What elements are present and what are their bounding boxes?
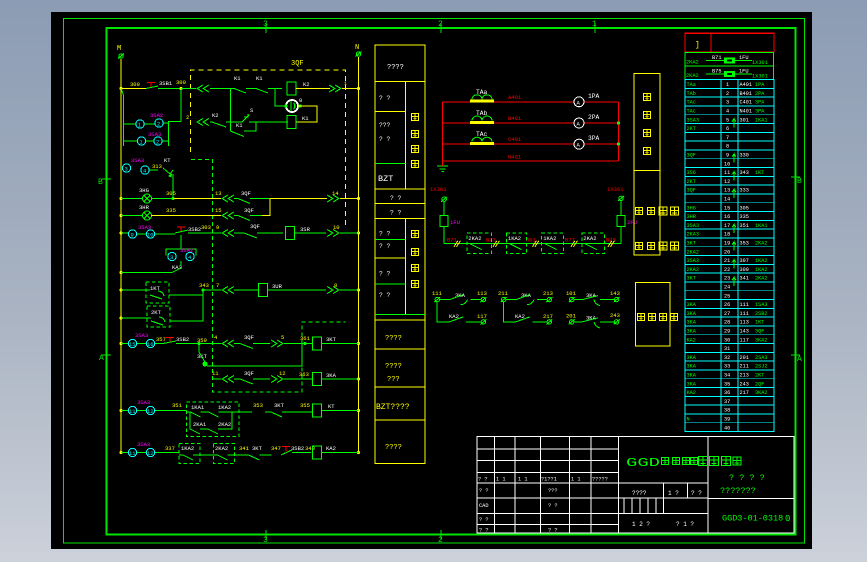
svg-text:3SA2: 3SA2 (150, 112, 163, 119)
svg-text:1KA2: 1KA2 (755, 267, 767, 273)
svg-text:TAb: TAb (476, 110, 488, 117)
svg-text:3SA3: 3SA3 (687, 117, 699, 123)
circle 9 (128, 230, 136, 238)
svg-text:3QF: 3QF (250, 223, 260, 230)
inner border frame (107, 28, 796, 535)
node on right bus (357, 87, 360, 90)
node on left bus (120, 197, 123, 200)
right bus terminal (356, 52, 362, 57)
svg-text:3S6: 3S6 (687, 170, 696, 176)
coil K2 (287, 82, 296, 95)
svg-text:3: 3 (726, 100, 729, 106)
svg-text:2: 2 (157, 121, 160, 128)
svg-text:3KA: 3KA (326, 372, 337, 379)
yellow box current loop (634, 74, 660, 171)
svg-text:2: 2 (186, 114, 189, 121)
svg-text:1KA1: 1KA1 (191, 404, 205, 411)
svg-text:1 2 ?: 1 2 ? (632, 521, 650, 528)
circle 10 (146, 230, 154, 238)
svg-text:1KA2: 1KA2 (218, 404, 231, 411)
dashed box 3QF breaker (yellow) (191, 70, 346, 229)
svg-text:BZT: BZT (378, 174, 393, 184)
svg-text:113: 113 (477, 290, 487, 297)
svg-text:343: 343 (740, 170, 749, 176)
outgoing group 2 row 1 (501, 297, 507, 302)
svg-text:????: ???? (385, 363, 402, 371)
svg-text:K1: K1 (236, 122, 243, 129)
switching bus wire (444, 243, 621, 245)
svg-text:0: 0 (785, 514, 790, 524)
svg-text:? ? ? ?: ? ? ? ? (729, 473, 765, 483)
svg-text:117: 117 (740, 337, 749, 343)
svg-text:3PA: 3PA (755, 100, 765, 106)
svg-text:301: 301 (740, 117, 749, 123)
svg-text:361: 361 (300, 335, 311, 342)
wire 305 (152, 198, 174, 200)
svg-text:1 1: 1 1 (518, 477, 528, 483)
svg-text:333: 333 (740, 188, 749, 194)
svg-text:2KA2: 2KA2 (755, 241, 767, 247)
svg-text:3KA: 3KA (687, 373, 697, 379)
wire hook mark (732, 172, 736, 181)
svg-text:????: ???? (387, 64, 404, 72)
svg-text:? ?: ? ? (691, 490, 702, 497)
svg-text:211: 211 (498, 290, 509, 297)
svg-text:2SB2: 2SB2 (755, 311, 767, 317)
selector 3SA2 circle 2 (155, 119, 163, 127)
wire 335 (152, 215, 222, 217)
svg-text:2SA3: 2SA3 (755, 355, 767, 361)
svg-text:351: 351 (172, 402, 183, 409)
svg-text:3KT: 3KT (326, 336, 337, 343)
svg-text:1FU: 1FU (739, 69, 749, 75)
svg-text:11: 11 (129, 408, 136, 415)
circle 4 (141, 166, 149, 174)
svg-text:?????: ????? (592, 477, 608, 483)
svg-text:3SA3: 3SA3 (135, 332, 148, 339)
svg-text:40: 40 (724, 425, 730, 431)
svg-text:33: 33 (724, 364, 730, 370)
circle 3 sub (168, 252, 176, 260)
wire hook mark (732, 154, 736, 163)
svg-text:9: 9 (216, 224, 219, 231)
svg-text:9: 9 (726, 153, 729, 159)
svg-text:36: 36 (724, 390, 730, 396)
dashed box 2KA2 (214, 444, 235, 464)
wire hook mark (732, 119, 736, 128)
svg-text:353: 353 (740, 241, 749, 247)
selector 3SA2 circle 1 (136, 120, 144, 128)
svg-text:3KA: 3KA (687, 381, 697, 387)
svg-text:2SJ2: 2SJ2 (755, 364, 767, 370)
svg-text:2KA2: 2KA2 (583, 235, 596, 242)
svg-text:???: ??? (387, 376, 400, 384)
svg-text:B401: B401 (740, 91, 752, 97)
node on right bus (357, 451, 360, 454)
svg-text:?1??1: ?1??1 (541, 477, 557, 483)
svg-text:111: 111 (740, 302, 749, 308)
svg-text:1: 1 (140, 140, 143, 146)
svg-text:TAc: TAc (476, 131, 488, 138)
yellow box control power (634, 171, 660, 256)
svg-text:3SA3: 3SA3 (148, 131, 161, 138)
section B divider (405, 82, 407, 190)
node on left bus (120, 87, 123, 90)
zone tick marks sides (102, 177, 800, 355)
contact in 2KA2 (470, 244, 489, 250)
svg-text:????: ???? (385, 335, 402, 343)
wire row 11 (213, 378, 221, 380)
svg-text:3: 3 (125, 166, 128, 173)
svg-text:2KA3: 2KA3 (687, 232, 699, 238)
svg-text:8: 8 (334, 282, 337, 289)
svg-text:309: 309 (740, 267, 749, 273)
svg-text:2FU: 2FU (627, 219, 637, 226)
current circuit right bus (618, 102, 620, 161)
svg-text:19: 19 (724, 241, 730, 247)
terminal table border (685, 80, 774, 432)
wire row13 out (270, 198, 327, 200)
svg-text:0: 0 (299, 97, 302, 104)
svg-text:GGD: GGD (626, 456, 660, 470)
svg-text:22: 22 (724, 267, 730, 273)
svg-text:24: 24 (724, 285, 730, 291)
node 300 (180, 87, 183, 90)
svg-text:111: 111 (432, 290, 443, 297)
svg-text:3SA2: 3SA2 (180, 247, 193, 254)
arrow in row1 (197, 85, 209, 92)
circle 13 (128, 448, 136, 456)
contacts in relay group top (187, 412, 239, 417)
svg-text:1 1: 1 1 (571, 477, 581, 483)
dashed relay box 1KA2 (506, 233, 526, 253)
node on left bus (120, 317, 123, 320)
svg-text:1X301: 1X301 (607, 186, 624, 193)
middle table outline (375, 45, 425, 464)
node on left bus (120, 232, 123, 235)
svg-text:1PA: 1PA (755, 82, 765, 88)
svg-text:3QF: 3QF (687, 153, 696, 159)
svg-text:2KT: 2KT (151, 309, 162, 316)
dashed relay box 2KA2 (467, 233, 492, 253)
svg-text:201: 201 (740, 355, 749, 361)
svg-text:13: 13 (215, 190, 222, 197)
coil 3UR (259, 284, 268, 297)
pushbutton 3SB2 (177, 227, 185, 232)
circle 12 (146, 406, 154, 414)
svg-text:2KA2: 2KA2 (755, 276, 767, 282)
svg-text:213: 213 (740, 373, 749, 379)
fuse 2FU (617, 215, 625, 226)
wire: left yellow bus (120, 59, 122, 453)
wire (210, 88, 234, 90)
node on left bus (120, 451, 123, 454)
svg-text:11: 11 (724, 170, 730, 176)
svg-text:303: 303 (201, 224, 211, 231)
svg-text:25: 25 (724, 293, 730, 299)
svg-text:6: 6 (726, 126, 729, 132)
svg-text:30: 30 (724, 337, 730, 343)
svg-text:3KA2: 3KA2 (755, 337, 767, 343)
svg-text:343: 343 (199, 282, 209, 289)
node on right bus (357, 342, 360, 345)
wire to arrow (181, 88, 196, 90)
svg-text:? ?: ? ? (379, 136, 391, 143)
wire to K1 coil (256, 121, 288, 123)
svg-text:10: 10 (147, 232, 154, 239)
svg-text:3SB1: 3SB1 (159, 80, 173, 87)
svg-text:335: 335 (166, 207, 176, 214)
fuse 1FU (440, 215, 448, 226)
svg-text:2KA2: 2KA2 (686, 73, 699, 79)
GGD section grid (619, 482, 709, 484)
section D divider (405, 219, 407, 315)
outgoing group 1 row 1 (434, 297, 440, 302)
svg-text:330: 330 (740, 153, 749, 159)
circle 3 (122, 164, 130, 172)
contact in 2KA2 (585, 244, 604, 250)
svg-text:29: 29 (724, 329, 730, 335)
fuse row 2 (685, 66, 774, 80)
svg-text:3SB2: 3SB2 (176, 336, 189, 343)
terminal left (441, 197, 447, 202)
pushbutton 3SB1 (147, 83, 155, 88)
svg-text:? ?: ? ? (379, 95, 391, 102)
svg-text:3HR: 3HR (687, 214, 696, 220)
CT TAa (470, 100, 494, 103)
svg-text:309: 309 (130, 81, 140, 88)
svg-text:N401: N401 (508, 154, 522, 161)
svg-text:1PA: 1PA (588, 93, 600, 100)
dashed box 1KA2 (179, 444, 200, 464)
contact in 1KT (121, 290, 164, 299)
break mark (608, 241, 615, 247)
dashed box 2KT (147, 306, 170, 327)
circle 15 (128, 339, 136, 347)
svg-text:3KT: 3KT (252, 445, 263, 452)
contacts in relay group bottom (190, 412, 232, 434)
outgoing group 3 row 1 (569, 297, 575, 302)
svg-text:B401: B401 (508, 115, 522, 122)
svg-text:????: ???? (632, 490, 647, 497)
svg-text:3SA3: 3SA3 (137, 399, 150, 406)
CT TAb (470, 121, 494, 124)
svg-text:3KA: 3KA (687, 329, 697, 335)
svg-text:B: B (797, 177, 802, 186)
svg-text:11: 11 (129, 450, 136, 457)
svg-text:2KT: 2KT (687, 126, 696, 132)
svg-text:3KT: 3KT (197, 353, 208, 360)
wire: right yellow bus (358, 57, 360, 453)
ammeter 3PA (574, 139, 584, 149)
svg-text:? ?: ? ? (390, 195, 402, 202)
svg-text:3: 3 (170, 254, 173, 261)
KT contact arrow (150, 168, 173, 199)
glyphs control power line1 (636, 208, 643, 215)
svg-text:3QF: 3QF (244, 207, 254, 214)
pushbutton 3SB2 ka2 (282, 447, 290, 452)
wire hook mark (732, 242, 736, 251)
svg-text:3SA3: 3SA3 (138, 224, 151, 231)
dashed relay box 2KA2 (582, 233, 605, 253)
coil KT (313, 404, 322, 417)
svg-text:2KT: 2KT (687, 179, 696, 185)
svg-text:K1: K1 (234, 75, 241, 82)
box G (375, 387, 425, 420)
lamp right lead (296, 106, 317, 122)
svg-text:? ?: ? ? (379, 231, 391, 238)
svg-text:KA2: KA2 (326, 445, 336, 452)
svg-text:A401: A401 (508, 94, 522, 101)
outgoing group 2 row 2 (546, 319, 552, 324)
svg-text:1FU: 1FU (450, 219, 460, 226)
svg-text:???????: ??????? (720, 486, 756, 496)
svg-text:? ?: ? ? (379, 292, 391, 299)
coil 3KT (313, 337, 322, 350)
svg-text:243: 243 (610, 312, 620, 319)
svg-text:39: 39 (724, 417, 730, 423)
selector 3SA3 circle 1 (137, 137, 145, 145)
node on right bus (357, 378, 360, 381)
svg-text:1: 1 (138, 123, 141, 129)
circle 16 (146, 339, 154, 347)
yellow box outgoing points (636, 283, 671, 347)
wire row1 309 (121, 88, 146, 90)
svg-text:35: 35 (724, 381, 730, 387)
svg-text:27: 27 (724, 311, 730, 317)
svg-text:3UR: 3UR (272, 283, 283, 290)
svg-text:? ?: ? ? (390, 210, 402, 217)
svg-text:347: 347 (271, 445, 281, 452)
svg-text:351: 351 (740, 223, 749, 229)
wire hook mark (732, 260, 736, 269)
GGD small cells (623, 498, 625, 513)
section C rows (375, 203, 425, 205)
phase wire A401 (443, 101, 619, 103)
svg-text:300: 300 (176, 79, 186, 86)
svg-text:363: 363 (299, 371, 309, 378)
svg-text:3SB2: 3SB2 (291, 445, 304, 452)
svg-text:34: 34 (724, 373, 730, 379)
svg-text:3KA2: 3KA2 (755, 390, 767, 396)
box E (375, 320, 425, 349)
svg-text:1SA3: 1SA3 (755, 302, 767, 308)
svg-text:???: ??? (548, 488, 558, 494)
svg-text:3KA: 3KA (687, 364, 697, 370)
coil 3KA (313, 373, 322, 386)
right section line (708, 498, 794, 500)
svg-text:26: 26 (724, 302, 730, 308)
svg-text:15: 15 (215, 207, 222, 214)
wire (342, 88, 359, 90)
CT TAc (470, 142, 494, 145)
svg-text:? ?: ? ? (479, 528, 489, 534)
svg-text:KA2: KA2 (687, 337, 696, 343)
svg-text:3KA: 3KA (687, 355, 697, 361)
svg-text:3SA3: 3SA3 (137, 441, 150, 448)
svg-text:217: 217 (740, 390, 749, 396)
arrow out row1 (329, 85, 341, 92)
svg-text:M: M (117, 45, 121, 53)
svg-text:337: 337 (165, 445, 175, 452)
circle 11 (128, 406, 136, 414)
neutral wire N401 (443, 160, 619, 162)
coil KA2 (313, 446, 322, 459)
svg-text:14: 14 (332, 190, 339, 197)
svg-text:? ?: ? ? (478, 477, 488, 483)
svg-text:10: 10 (333, 224, 340, 231)
circle 14 (146, 448, 154, 456)
wire to arrow 13 (173, 198, 221, 200)
svg-text:? ?: ? ? (548, 528, 558, 534)
svg-text:12: 12 (147, 408, 154, 415)
svg-text:1: 1 (726, 82, 729, 88)
svg-text:KA2: KA2 (449, 313, 459, 320)
phase wire C401 (443, 143, 619, 145)
svg-text:31: 31 (724, 346, 730, 352)
svg-text:37: 37 (724, 399, 730, 405)
svg-text:111: 111 (740, 311, 749, 317)
svg-text:KA2: KA2 (515, 313, 525, 320)
zone tick marks top (266, 23, 595, 33)
svg-text:1FU: 1FU (739, 55, 749, 61)
svg-text:3QF: 3QF (241, 190, 251, 197)
section D glyphs (412, 231, 419, 238)
node on left bus (120, 289, 123, 292)
svg-text:28: 28 (724, 320, 730, 326)
svg-text:GGD3-01-0318: GGD3-01-0318 (722, 514, 783, 524)
break mark (533, 241, 540, 247)
svg-text:21: 21 (724, 258, 730, 264)
coil K1 (287, 116, 296, 129)
svg-text:TAc: TAc (687, 109, 696, 115)
svg-text:1 1: 1 1 (496, 477, 506, 483)
selector 3SA2 sub (166, 235, 196, 256)
node on left bus (120, 342, 123, 345)
svg-text:B71: B71 (712, 55, 722, 61)
svg-text:????: ???? (385, 444, 402, 452)
svg-text:3KT: 3KT (687, 241, 696, 247)
svg-text:1KA2: 1KA2 (181, 445, 194, 452)
svg-text:2: 2 (156, 139, 159, 146)
svg-text:? 1 ?: ? 1 ? (676, 521, 694, 528)
svg-text:17: 17 (724, 223, 730, 229)
svg-text:2KA2: 2KA2 (218, 421, 231, 428)
node on right bus (357, 409, 360, 412)
svg-text:3QF: 3QF (755, 329, 764, 335)
svg-text:18: 18 (724, 232, 730, 238)
svg-text:7: 7 (726, 135, 729, 141)
svg-text:3HG: 3HG (139, 187, 149, 194)
dashed relay box 1KA2 (542, 233, 564, 253)
svg-text:38: 38 (724, 408, 730, 414)
svg-text:201: 201 (566, 313, 577, 320)
svg-text:N: N (355, 44, 359, 52)
title block outer (477, 436, 794, 533)
svg-text:3SA3: 3SA3 (687, 258, 699, 264)
svg-text:217: 217 (543, 313, 553, 320)
svg-text:2KA2: 2KA2 (686, 60, 699, 66)
svg-text:305: 305 (166, 190, 176, 197)
svg-text:313: 313 (152, 163, 162, 170)
break mark (571, 241, 578, 247)
svg-text:TAb: TAb (687, 91, 696, 97)
svg-text:2QF: 2QF (755, 381, 764, 387)
wire join up (262, 199, 270, 216)
break mark (454, 241, 461, 247)
svg-text:143: 143 (740, 329, 749, 335)
svg-text:1KA1: 1KA1 (755, 223, 767, 229)
